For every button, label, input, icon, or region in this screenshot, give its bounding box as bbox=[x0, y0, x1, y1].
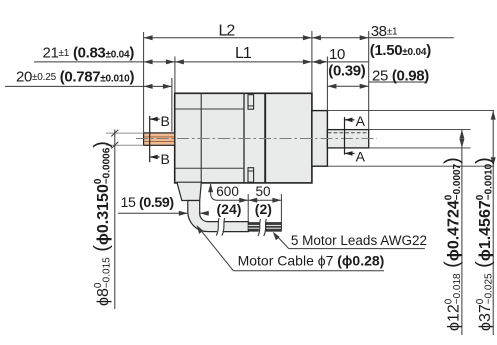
top notch bbox=[248, 95, 254, 110]
svg-text:600: 600 bbox=[216, 184, 239, 199]
bottom notch bbox=[248, 168, 254, 183]
svg-text:10: 10 bbox=[329, 46, 345, 63]
keyway hidden line bbox=[328, 132, 369, 134]
svg-text:(24): (24) bbox=[217, 201, 242, 217]
ext line cable end bbox=[247, 194, 249, 221]
svg-text:38±1: 38±1 bbox=[371, 23, 398, 40]
svg-text:L2: L2 bbox=[219, 23, 236, 40]
section B-B bbox=[150, 113, 170, 167]
phi37 extension lines bbox=[327, 110, 494, 112]
motor rear edge line bbox=[243, 93, 245, 183]
cable break mark bbox=[216, 218, 224, 236]
phi37 dimension line bbox=[491, 111, 496, 335]
motor chamfer line top bbox=[175, 108, 244, 110]
phi8 dimension line bbox=[111, 130, 118, 310]
svg-text:Motor Cable ϕ7 (ϕ0.28): Motor Cable ϕ7 (ϕ0.28) bbox=[238, 252, 385, 268]
extension line boss face bbox=[326, 57, 328, 111]
extension line gearhead face bbox=[311, 31, 313, 93]
svg-text:(2): (2) bbox=[255, 201, 272, 217]
50 dimension line bbox=[248, 198, 281, 203]
note motor leads bbox=[273, 232, 427, 249]
pilot boss bbox=[312, 111, 328, 167]
gearhead left edge bbox=[264, 93, 266, 183]
25 dimension line bbox=[327, 82, 427, 89]
phi12 dimension line bbox=[459, 130, 464, 335]
svg-text:A: A bbox=[356, 113, 366, 129]
extension line motor front face bbox=[174, 57, 176, 94]
svg-text:L1: L1 bbox=[235, 45, 252, 62]
motor leads bbox=[248, 223, 281, 232]
extension line rear shaft tip bbox=[143, 32, 145, 133]
phi12 extension lines bbox=[369, 129, 471, 131]
motor cable elbow bbox=[188, 201, 249, 232]
svg-text:5 Motor Leads AWG22: 5 Motor Leads AWG22 bbox=[291, 233, 427, 248]
leads break mark bbox=[258, 219, 266, 236]
ext line leads end bbox=[280, 194, 282, 229]
svg-text:(0.39): (0.39) bbox=[328, 62, 365, 79]
extension line 20mm point bbox=[171, 78, 173, 132]
extension line shaft tip bbox=[368, 31, 370, 129]
motor body silhouette bbox=[175, 93, 312, 183]
phi8 extension lines bbox=[106, 132, 144, 134]
rear shaft bbox=[144, 133, 175, 145]
svg-text:A: A bbox=[356, 148, 366, 164]
20 dimension line bbox=[5, 84, 172, 89]
output shaft bbox=[327, 130, 368, 148]
600 leader and dimension line bbox=[208, 183, 248, 203]
centerline bbox=[136, 138, 377, 140]
cable boot bbox=[177, 182, 201, 200]
section A-A bbox=[345, 113, 366, 164]
15 dimension line bbox=[118, 211, 209, 216]
svg-text:B: B bbox=[161, 151, 170, 167]
svg-text:50: 50 bbox=[256, 184, 271, 199]
motor front endbell line bbox=[200, 93, 202, 183]
motor chamfer line bottom bbox=[175, 167, 244, 169]
L2 / 38 dimension line bbox=[144, 35, 454, 40]
L1 / 10 dimension line bbox=[34, 59, 368, 64]
note motor cable bbox=[197, 225, 385, 271]
svg-text:B: B bbox=[161, 113, 170, 129]
svg-text:15 (0.59): 15 (0.59) bbox=[121, 195, 175, 211]
svg-text:25 (0.98): 25 (0.98) bbox=[372, 67, 429, 84]
